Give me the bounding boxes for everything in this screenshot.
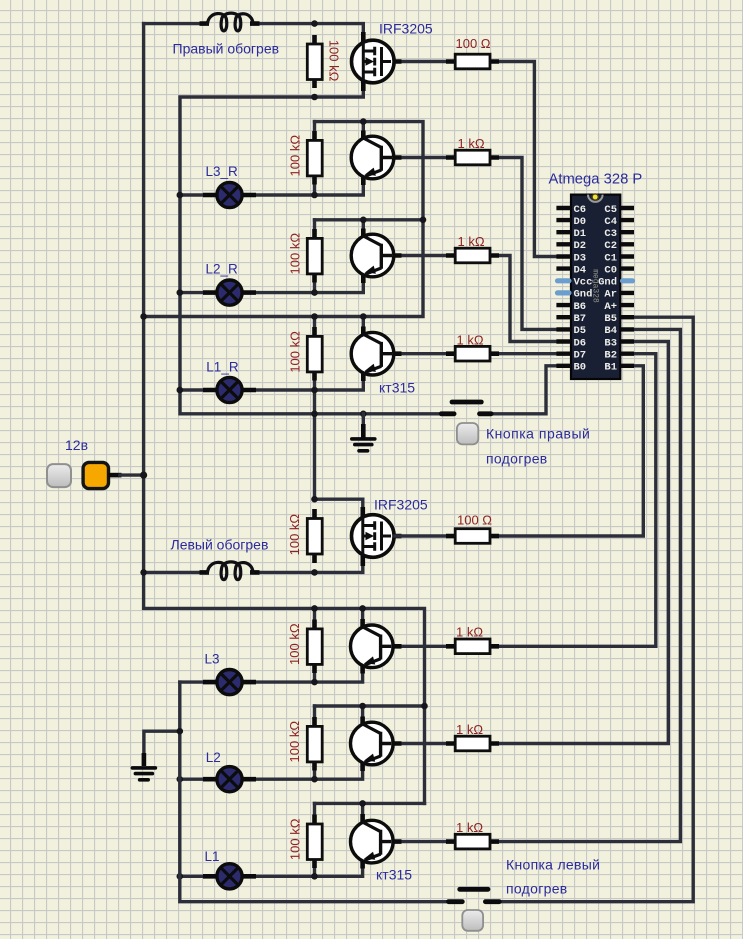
wire gate M1 to 100ohm to D3 bbox=[395, 62, 556, 257]
svg-text:D1: D1 bbox=[574, 228, 587, 240]
dot bottom rail2 bbox=[421, 703, 428, 710]
svg-text:100 kΩ: 100 kΩ bbox=[287, 623, 302, 665]
svg-text:100 kΩ: 100 kΩ bbox=[326, 40, 341, 82]
resistor RL3 100k bbox=[307, 620, 322, 674]
resistor RBL3 1k bbox=[446, 639, 499, 654]
wire stage rails vertical connector bbox=[144, 122, 423, 317]
svg-text:100 kΩ: 100 kΩ bbox=[287, 331, 302, 373]
wire stage3 resistor stub through lamp row to ground row and to mosfet2 rail bbox=[313, 317, 316, 500]
resistor 100 Ohm top bbox=[446, 54, 499, 69]
wire emitter1 and lamp row bbox=[180, 178, 363, 195]
ground GND1 bbox=[352, 414, 375, 451]
svg-text:100 kΩ: 100 kΩ bbox=[287, 233, 302, 275]
svg-text:Gnd: Gnd bbox=[598, 277, 617, 289]
lamp L3 bbox=[203, 670, 256, 695]
svg-text:Правый обогрев: Правый обогрев bbox=[173, 41, 280, 57]
svg-text:L3: L3 bbox=[205, 652, 220, 667]
wire main left rail bbox=[144, 24, 425, 804]
svg-text:C4: C4 bbox=[604, 216, 617, 228]
lamp L3_R bbox=[203, 182, 256, 207]
svg-text:D5: D5 bbox=[574, 325, 587, 337]
resistor R3 100k bbox=[307, 327, 322, 381]
wire bottom lamp rail and switch row bbox=[180, 317, 693, 902]
svg-text:L1_R: L1_R bbox=[206, 359, 239, 374]
svg-text:1 kΩ: 1 kΩ bbox=[456, 625, 483, 640]
svg-text:1 kΩ: 1 kΩ bbox=[457, 332, 484, 347]
svg-text:кт315: кт315 bbox=[376, 867, 412, 883]
svg-text:D2: D2 bbox=[574, 240, 587, 252]
svg-text:B0: B0 bbox=[574, 362, 587, 374]
chip right pin labels bbox=[598, 204, 617, 374]
resistor R2 100k bbox=[307, 229, 322, 283]
lamp L2_R bbox=[203, 280, 256, 305]
dot mosfet2 rail bbox=[311, 496, 318, 503]
transistor Q1 bbox=[351, 131, 401, 186]
svg-text:Atmega 328 P: Atmega 328 P bbox=[549, 172, 643, 188]
wire stageL1 resistor stubs bbox=[313, 803, 316, 876]
svg-text:100 kΩ: 100 kΩ bbox=[287, 514, 302, 556]
svg-text:D7: D7 bbox=[574, 350, 587, 362]
resistor R_M1 100k vertical bbox=[307, 35, 322, 88]
svg-text:D4: D4 bbox=[574, 264, 587, 276]
wire bottom stage rails connector bbox=[315, 706, 425, 803]
svg-text:100 kΩ: 100 kΩ bbox=[287, 135, 302, 177]
dot rail3 main rail bbox=[140, 313, 147, 320]
junction dots stage L3 bbox=[311, 605, 318, 612]
wire base L1 to B4 bbox=[395, 329, 680, 841]
svg-text:L2: L2 bbox=[206, 750, 221, 765]
svg-text:100 kΩ: 100 kΩ bbox=[287, 721, 302, 763]
wire base L3 to B2 bbox=[395, 354, 656, 647]
wire collector2 bbox=[362, 220, 365, 235]
svg-text:1 kΩ: 1 kΩ bbox=[458, 136, 485, 151]
wire emitter2 and lamp row bbox=[180, 276, 363, 293]
wire inductor row left heater bbox=[144, 558, 363, 572]
svg-text:Кнопка левый: Кнопка левый bbox=[506, 857, 600, 873]
svg-text:Gnd: Gnd bbox=[574, 289, 593, 301]
svg-text:C3: C3 bbox=[604, 228, 617, 240]
wire top rail right heater bbox=[144, 24, 364, 40]
svg-text:C5: C5 bbox=[604, 204, 617, 216]
dot main rail inductor bbox=[140, 569, 147, 576]
dot rail2 bbox=[420, 217, 427, 224]
junction dots stage L1 bbox=[359, 800, 366, 807]
chip right pins bbox=[620, 208, 634, 366]
svg-text:B3: B3 bbox=[604, 337, 617, 349]
wire emitter L3 and lamp row bbox=[180, 665, 363, 682]
mosfet U2 IRF3205 bbox=[352, 507, 402, 566]
wire collector1 bbox=[362, 122, 365, 137]
svg-text:12в: 12в bbox=[65, 437, 88, 453]
wire emitter L1 and lamp row bbox=[180, 861, 363, 877]
svg-text:B7: B7 bbox=[574, 313, 587, 325]
resistor RBL1 1k bbox=[446, 834, 499, 849]
chip left pins bbox=[556, 208, 571, 366]
svg-text:C1: C1 bbox=[604, 252, 617, 264]
svg-text:B4: B4 bbox=[604, 325, 617, 337]
svg-text:B6: B6 bbox=[574, 301, 587, 313]
wire base2 to D6 bbox=[395, 256, 556, 342]
junction dots stage3 bbox=[360, 313, 367, 320]
wire gate M2 to 100ohm to B1 bbox=[395, 366, 643, 536]
resistor 100 Ohm left heater bbox=[446, 529, 499, 544]
wire mosfet1 source row bbox=[180, 83, 452, 414]
button right heater bbox=[457, 423, 478, 444]
lamp L2 bbox=[203, 767, 256, 792]
svg-text:1 kΩ: 1 kΩ bbox=[456, 820, 483, 835]
ground GND2 bbox=[132, 768, 155, 780]
wire stage2 resistor stub bbox=[313, 220, 316, 293]
inductor L right heater bbox=[200, 13, 260, 31]
resistor R_M2 100k bbox=[307, 509, 322, 563]
svg-text:Левый обогрев: Левый обогрев bbox=[171, 537, 269, 553]
svg-text:A+: A+ bbox=[604, 301, 617, 313]
svg-text:1 kΩ: 1 kΩ bbox=[456, 722, 483, 737]
svg-text:B5: B5 bbox=[604, 313, 617, 325]
junction dots stage1 bbox=[360, 118, 367, 125]
svg-text:C2: C2 bbox=[604, 240, 617, 252]
svg-text:Ar: Ar bbox=[604, 289, 617, 301]
wire emitter3 and lamp row bbox=[180, 374, 363, 390]
resistor RBL2 1k bbox=[446, 736, 499, 751]
svg-text:IRF3205: IRF3205 bbox=[374, 497, 428, 513]
svg-text:подогрев: подогрев bbox=[506, 881, 568, 897]
svg-text:кт315: кт315 bbox=[379, 380, 415, 396]
svg-text:B1: B1 bbox=[604, 362, 617, 374]
svg-text:Vcc: Vcc bbox=[574, 277, 593, 289]
button left heater bbox=[462, 910, 483, 931]
resistor RL1 100k bbox=[307, 815, 322, 869]
inductor L left heater bbox=[200, 562, 260, 580]
svg-text:D3: D3 bbox=[574, 252, 587, 264]
transistor Q2 bbox=[351, 229, 401, 284]
svg-text:C6: C6 bbox=[574, 204, 587, 216]
svg-text:подогрев: подогрев bbox=[486, 451, 548, 467]
svg-text:C0: C0 bbox=[604, 264, 617, 276]
junction dots M1 resistor bbox=[311, 20, 318, 27]
wire stage1 resistor stub bbox=[313, 122, 316, 195]
dot R_M2 bottom bbox=[311, 569, 318, 576]
chip left pin labels bbox=[574, 204, 593, 374]
chip U3 body bbox=[571, 194, 620, 379]
svg-text:D6: D6 bbox=[574, 337, 587, 349]
svg-text:1 kΩ: 1 kΩ bbox=[458, 234, 485, 249]
transistor QL3 bbox=[351, 619, 402, 674]
wire switch1 right to B0 bbox=[481, 366, 556, 414]
wire collector L2 bbox=[361, 706, 364, 724]
svg-text:L3_R: L3_R bbox=[206, 164, 239, 179]
svg-text:D0: D0 bbox=[574, 216, 587, 228]
svg-text:100 Ω: 100 Ω bbox=[456, 36, 491, 51]
junction dots stage2 bbox=[360, 217, 367, 224]
resistor RB2 1k bbox=[446, 248, 499, 263]
wire stageL3 resistor stubs bbox=[313, 608, 316, 682]
lamp L1 bbox=[203, 864, 256, 889]
resistor RB3 1k bbox=[446, 346, 499, 361]
wire mosfet2 drain rail bbox=[315, 499, 363, 515]
resistor RB1 1k bbox=[446, 150, 499, 165]
transistor Q3 kt315 bbox=[351, 327, 401, 382]
transistor QL2 bbox=[351, 717, 402, 772]
lamp L1_R bbox=[203, 377, 256, 402]
wire collector3 bbox=[362, 317, 365, 334]
transistor QL1 kt315 bbox=[351, 814, 402, 869]
resistor RL2 100k bbox=[307, 717, 322, 771]
svg-text:Кнопка правый: Кнопка правый bbox=[486, 426, 590, 442]
switch SW1 (push button contacts) bbox=[441, 402, 491, 414]
wire stageL2 resistor stubs bbox=[313, 706, 316, 779]
wire base L2 to B3 bbox=[395, 342, 668, 744]
wire base3 to D7 bbox=[395, 352, 556, 355]
wire base1 to D5 bbox=[395, 158, 556, 330]
svg-text:L2_R: L2_R bbox=[206, 262, 239, 277]
wire ground2 branch bbox=[144, 731, 180, 755]
switch SW2 (push button contacts) bbox=[449, 889, 500, 901]
wire collector L1 bbox=[361, 803, 364, 821]
svg-text:100 kΩ: 100 kΩ bbox=[288, 818, 303, 860]
mosfet U1 IRF3205 bbox=[352, 32, 402, 91]
junction dots ground row bbox=[311, 411, 318, 418]
dot ground2 bbox=[177, 728, 184, 735]
resistor R1 100k bbox=[307, 131, 322, 185]
svg-text:B2: B2 bbox=[604, 350, 617, 362]
svg-text:L1: L1 bbox=[205, 849, 220, 864]
junction dots stage L2 bbox=[359, 703, 366, 710]
svg-text:IRF3205: IRF3205 bbox=[379, 21, 433, 37]
supply 12v bbox=[47, 462, 147, 488]
wire emitter L2 and lamp row bbox=[180, 763, 363, 780]
svg-text:100 Ω: 100 Ω bbox=[457, 513, 492, 528]
wire collector L3 bbox=[361, 608, 364, 626]
chip power pins blue bbox=[558, 281, 570, 293]
